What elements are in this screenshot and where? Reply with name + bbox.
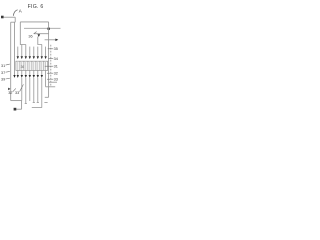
leader 33 bottom [20, 84, 24, 91]
wire bottom ell [32, 107, 42, 109]
arrow down on bus 3 [38, 34, 41, 37]
wire column drops upper [17, 47, 19, 57]
leader 32 right [47, 72, 53, 74]
wire column drops lower [22, 78, 48, 108]
svg-text:35: 35 [54, 47, 58, 51]
output terminal dot [14, 108, 17, 111]
wire bus 3 [34, 33, 49, 35]
cell columns [18, 45, 46, 57]
cell box row [16, 61, 48, 70]
input terminal dot [1, 16, 4, 19]
wire bus 1 [20, 21, 48, 23]
arrow into left wire [8, 88, 10, 91]
wire foot C2 [25, 103, 27, 105]
svg-text:37: 37 [1, 71, 5, 75]
leader 31 left [6, 64, 10, 65]
wire bottom dash [44, 102, 47, 104]
wire corner left [11, 21, 16, 23]
wire through cells [18, 62, 46, 70]
svg-text:FIG. 6: FIG. 6 [28, 4, 44, 10]
dashed boundary [50, 45, 52, 86]
wire corner down [14, 17, 16, 22]
svg-text:36: 36 [21, 65, 25, 69]
label 36 leader [34, 32, 37, 34]
leader 37 [6, 70, 10, 73]
svg-text:36: 36 [28, 35, 32, 39]
wire output horizontal [11, 100, 22, 102]
wire foot C4 [33, 102, 35, 104]
wire input horizontal [3, 16, 15, 18]
wire right long vertical [48, 22, 50, 97]
arrow row 2 [17, 75, 43, 78]
arrow row 1 [17, 56, 47, 59]
svg-text:31: 31 [1, 64, 5, 68]
svg-text:39: 39 [1, 78, 5, 82]
wire left long vertical [10, 22, 12, 100]
wire bus 2 [24, 27, 61, 29]
wire right stub 1 [49, 81, 57, 83]
wire right horizontal with arrow [45, 39, 56, 41]
background [0, 0, 63, 120]
leader 35 [48, 48, 53, 50]
leader 33 right [47, 78, 53, 80]
arrowhead right [55, 39, 58, 42]
leader 34 [48, 58, 53, 60]
svg-text:A: A [19, 9, 22, 14]
svg-text:32: 32 [8, 91, 12, 95]
wire output stub [16, 108, 21, 110]
wire output drop [21, 101, 23, 110]
node A leader arrow [13, 10, 17, 16]
wire right bottom corner [45, 96, 49, 98]
svg-text:31: 31 [54, 64, 58, 68]
svg-text:33: 33 [54, 77, 58, 81]
svg-text:32: 32 [54, 71, 58, 75]
wire right stub 2 [46, 86, 56, 88]
leader 31 right [45, 65, 53, 67]
wire column drops mid [18, 70, 46, 86]
wire drop from bus 3 [38, 37, 42, 45]
svg-text:34: 34 [54, 57, 58, 61]
leader 39 [6, 77, 10, 80]
wire second vertical [14, 22, 16, 75]
left labels [1, 64, 23, 95]
right labels [45, 47, 58, 81]
wire bus1 drop [20, 22, 26, 45]
svg-text:33: 33 [15, 91, 19, 95]
leader 32 bottom [13, 88, 16, 92]
node junction dot [48, 28, 50, 30]
wire foot C5 [37, 102, 39, 104]
